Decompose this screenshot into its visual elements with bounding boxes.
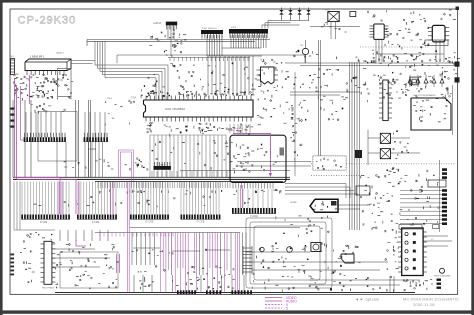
wire along right border [452,85,454,135]
right edge connector stubs group1 [442,168,447,171]
corner mark [456,7,460,11]
comb labels [141,191,142,193]
svg-text:P303: P303 [231,27,237,29]
wires right of AV box [285,183,346,185]
jog ticks between [203,196,205,198]
bar row2 connectors [21,218,70,220]
label box above K1 [399,225,422,230]
bottom connector bars [177,293,196,295]
tuner TU01 box [25,59,71,71]
svg-text:FROM SUB-BOARD: FROM SUB-BOARD [434,275,451,278]
nested routing loops [246,218,332,288]
wire middle band [13,176,290,178]
IC01 TDA8843 main IC [144,100,254,117]
parts left of IC [120,106,122,108]
svg-text:IC01 TDA8843: IC01 TDA8843 [165,107,185,111]
right vertical wire bundle [349,62,351,230]
wire top bus [87,39,270,41]
delay line block above IC [168,57,250,59]
connector P301 [166,22,177,26]
wire long y55 [117,54,305,56]
wires bottom center [246,251,310,253]
bottom mid labels [162,250,164,252]
wires pentagon right [338,204,370,206]
wire left verticals to band [12,100,14,177]
component column x295 [294,72,296,176]
bottom right stubs [437,279,442,281]
jack symbols row [279,10,283,15]
magenta loop above band [119,150,134,181]
K1 inner circles [405,232,408,235]
small boxes right [356,186,370,195]
parts below pentagon [307,218,309,220]
IC01 fanout to band [149,135,151,177]
svg-text:1.2: 1.2 [431,239,434,241]
magenta verticals to row2 bars [58,182,60,215]
sq-in-sq part [410,77,419,85]
IF cluster components [46,78,48,80]
connector P303 wide comb [229,29,268,34]
diode row right [408,79,412,84]
wire jog rows [207,55,262,57]
speaker circle [440,268,445,273]
left edge stubs [11,254,15,256]
wires AV comb to P-DRE bar [237,189,239,208]
wires connectors down to IC [206,35,208,56]
transistor circles bottom [287,247,293,253]
svg-text:P-CRE: P-CRE [92,222,100,224]
magenta trace left edge pair [14,78,16,177]
connector small P&G above band [154,166,171,170]
bottom mid component clusters [140,271,142,273]
svg-text:P-CRE: P-CRE [40,222,48,224]
transformer T1 box-X [380,133,390,143]
svg-text:P-CRE: P-CRE [146,220,154,224]
bottom center cluster [339,255,341,257]
black verticals interleaved [131,233,133,266]
grey bar inside AV box [280,148,285,156]
svg-text:P-CRE: P-CRE [197,220,205,224]
IC01 pin labels top strip [224,91,225,92]
dark part [355,150,362,158]
IC803 vertical strip [383,80,388,121]
transistor circle TR [302,48,308,54]
pair boxes [433,225,439,229]
svg-text:100V-117/170V-(EU/AM/KR): 100V-117/170V-(EU/AM/KR) [413,94,436,97]
bottom left box outline [60,252,118,288]
bottom section top line [95,232,240,234]
dotted line top right [360,46,428,48]
parts below crystal [259,74,261,76]
IC01 top pins [145,96,147,101]
bottom right small cluster [392,229,394,231]
AV box pins below [232,183,234,189]
parts below bars left [27,235,29,237]
IC IC801 vertical [374,24,384,39]
wires upper bottom-right [237,161,311,163]
wires far left below band [13,182,15,231]
right border connector stubs [455,62,460,67]
IC K1 sub board vertical [402,228,423,276]
SAW filter box right of tuner [58,69,72,97]
wire lower mid [130,227,300,229]
parts below P301 [149,45,152,47]
magenta dashes near AV label [234,128,244,130]
wires mid right [318,40,320,160]
parts right of transformers [393,133,395,135]
parts inside HV block [443,118,446,120]
wire nest left of IC [95,42,168,101]
dashed option rect [313,156,346,170]
wire bottom ground bus [55,292,415,294]
svg-text:1 N5AS MF 1: 1 N5AS MF 1 [30,56,45,59]
connector P302 [201,30,223,34]
jack wires staircase [282,20,310,22]
high voltage block rounded [411,98,451,130]
connector P-IF left edge [11,59,15,75]
bottom right mid cluster [383,195,385,197]
parts among fanout [210,167,212,170]
box below IC802 [425,40,448,46]
connector bar CN201 [24,141,66,143]
wires tuner to right [71,60,95,62]
left edge stubs upper [11,108,15,110]
svg-text:TDA: TDA [131,96,136,100]
K1 right wires [423,235,448,237]
wires around transformers [368,137,380,139]
wires above bars [25,112,27,137]
AV input sub-board box [230,135,286,182]
wire at y170 [180,170,290,172]
svg-text:P-DRE: P-DRE [250,214,258,218]
svg-text:MC-009A MAIN SCHEMATIC: MC-009A MAIN SCHEMATIC [403,297,459,302]
svg-text:P302 SVHS-01: P302 SVHS-01 [202,28,218,30]
svg-text:H-LINE: H-LINE [290,202,297,204]
bottom mid connecting wires [133,247,160,249]
wire right bus [285,62,456,64]
top right wires down [375,40,377,62]
big empty rect left mid [38,112,77,162]
magenta trace upper left [21,86,24,140]
comb pin ticks below band [97,182,99,188]
connector PG01 vertical [44,241,52,284]
svg-text:◄ ► :opt.com: ◄ ► :opt.com [355,298,379,302]
cluster left mid [44,94,46,97]
outer border frame [0,0,474,3]
magenta trace into AV box [233,133,270,172]
top right cluster parts [391,43,393,45]
svg-text:LA0513: LA0513 [56,52,64,55]
wires from relay [330,22,332,39]
left cluster of K1 wires [389,276,391,292]
magenta trace tuner [29,75,31,104]
svg-text:PR01: PR01 [325,10,331,12]
wires bottom left [52,248,95,250]
crystal block X-tal [261,67,275,84]
parts inside AV box [234,171,236,174]
degauss relay box [328,12,339,22]
svg-text:TR: TR [300,45,303,47]
parts above IC right [140,89,142,91]
top right scattered parts [374,15,376,17]
svg-text:FB01 TRANS: FB01 TRANS [42,287,55,290]
small box right [350,12,356,17]
tuner pins [26,71,28,76]
audio out transformer [311,243,321,252]
magenta bits bottom left [76,240,86,246]
verticals below bars [56,142,58,177]
parts below IC [186,129,188,131]
transformer T2 box-X [380,149,390,159]
CRT socket pentagon [310,199,338,212]
dashed option box [311,174,365,176]
magenta ticks under line [99,233,101,237]
IC IC802 vertical [432,25,445,42]
right edge connector stubs group2 [442,189,447,192]
svg-text:2000.11.28: 2000.11.28 [413,302,435,307]
svg-text:CP-29K30: CP-29K30 [18,15,77,27]
svg-text:5: 5 [286,306,288,310]
svg-text:LA0513: LA0513 [153,22,162,25]
vertical combs left of audio [243,247,252,249]
bottom right wire rows [310,279,420,281]
fanout band to bar row [21,182,23,215]
magenta pair right of P-DRE [240,185,242,208]
bottom left parts [111,244,114,246]
connector bar CN202 [84,141,108,143]
magenta trace along band to bars [15,177,61,214]
legend color key [265,297,282,299]
trapezoid part [341,254,354,263]
wires into stubs [400,190,442,192]
IC01 bottom pins [145,117,147,122]
